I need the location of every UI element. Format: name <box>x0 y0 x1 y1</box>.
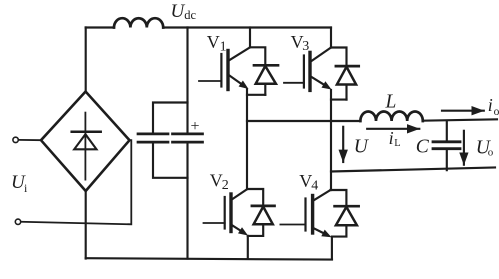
wire: right leg midsection <box>330 100 332 190</box>
transistor V1 gate lead <box>199 80 221 82</box>
svg-text:2: 2 <box>222 178 229 193</box>
transistor V2 gate bar <box>224 197 226 229</box>
diode VD1 triangle <box>256 66 276 84</box>
transistor V2 emitter arrow <box>238 227 248 235</box>
capacitor C output filter stem <box>446 121 448 171</box>
svg-text:o: o <box>494 106 499 118</box>
bridge diode symbol lead <box>84 113 86 180</box>
transistor V1 collector drop from top rail <box>249 28 251 48</box>
wire: bottom dc rail <box>86 258 332 259</box>
transistor V2 emitter diagonal <box>231 225 240 231</box>
diode VD1 cathode bar <box>254 64 278 67</box>
diode bridge rectifier (diamond) <box>41 92 130 192</box>
transistor V4 body bar <box>311 196 314 234</box>
svg-text:i: i <box>24 181 28 195</box>
wire: V4 emitter to bottom rail <box>331 237 333 258</box>
arrow Uo (output voltage) <box>463 131 465 165</box>
bridge diode cathode bar <box>72 131 101 134</box>
diode VD2 anode stem and stub <box>248 225 263 236</box>
diode VD3 top stub <box>331 48 347 65</box>
transistor V1 gate bar <box>220 54 222 87</box>
transistor V3 collector diagonal <box>310 48 331 63</box>
svg-text:+: + <box>191 118 200 135</box>
svg-text:4: 4 <box>311 179 318 194</box>
bridge diode triangle <box>74 134 96 149</box>
diode VD4 triangle <box>336 207 357 225</box>
diode VD2 triangle <box>254 207 273 225</box>
arrow U (bridge output voltage) <box>342 127 344 162</box>
wire: V3 emitter to midpoint stub <box>331 90 347 100</box>
diode VD3 cathode bar <box>336 65 359 68</box>
wire: bridge bottom vertex to bottom rail <box>85 191 87 259</box>
svg-text:U: U <box>354 136 370 157</box>
diode VD1 anode stem <box>264 85 266 95</box>
transistor V1 emitter diagonal <box>228 75 241 84</box>
wire: top rail left segment <box>86 26 114 28</box>
transistor V3 gate lead <box>284 82 304 84</box>
diode VD4 top stub <box>331 190 347 205</box>
wire: top rail right segment to right leg <box>163 26 331 28</box>
transistor V2 gate lead <box>204 222 225 224</box>
transistor V3 collector drop from top rail <box>330 28 332 48</box>
transistor V3 emitter arrow <box>322 81 332 89</box>
svg-text:o: o <box>488 146 494 158</box>
transistor V3 emitter diagonal <box>310 76 324 84</box>
transistor V4 emitter diagonal <box>313 228 323 233</box>
node Udc: dc rail drop to capacitor bank <box>186 28 188 134</box>
capacitor C plates <box>433 142 460 149</box>
transistor V3 body bar <box>308 52 311 90</box>
wire: bridge top vertex to top rail <box>85 28 87 92</box>
terminal: ac input lower <box>15 219 20 224</box>
svg-text:i: i <box>389 128 394 148</box>
wire: output tap A (top output line) <box>247 120 360 122</box>
svg-text:V: V <box>207 32 220 52</box>
svg-text:L: L <box>394 138 400 149</box>
transistor V1 emitter arrow <box>239 81 249 90</box>
transistor V3 gate bar <box>303 56 305 88</box>
diode VD4 cathode bar <box>335 205 359 208</box>
inductor L (output filter) <box>360 111 422 121</box>
diode VD1 top stub <box>250 47 265 64</box>
transistor V4 gate bar <box>304 199 306 231</box>
transistor V4 gate lead <box>280 224 305 226</box>
transistor V4 collector diagonal <box>313 190 331 201</box>
inductor Ld (dc-link smoothing choke) <box>114 18 163 27</box>
arrow io (output current) <box>442 110 484 112</box>
wire: V2 emitter to bottom rail <box>247 236 249 259</box>
wire: after L to output <box>423 119 497 120</box>
transistor V2 body bar <box>229 194 232 232</box>
wire: dc rail below capacitor to bottom rail <box>186 143 188 259</box>
diode VD3 anode stem <box>345 86 347 100</box>
transistor V1 body bar <box>226 51 229 90</box>
capacitor C1 (left dc-link cap) parallel loop <box>153 103 188 178</box>
diode VD3 triangle <box>337 67 356 85</box>
wire: output tap B (bottom output line) <box>331 168 495 172</box>
capacitor C2 (right dc-link cap) plates <box>173 134 203 142</box>
capacitor C1 plates <box>138 134 168 142</box>
diode VD2 cathode bar <box>252 205 275 208</box>
svg-text:i: i <box>488 95 493 115</box>
svg-text:C: C <box>416 137 430 158</box>
terminal: ac input upper <box>13 137 18 142</box>
svg-text:dc: dc <box>184 8 196 22</box>
wire: lower terminal to bridge right vertex <box>21 140 131 224</box>
transistor V2 collector diagonal <box>231 189 247 200</box>
svg-text:1: 1 <box>220 40 227 55</box>
transistor V4 emitter arrow <box>321 230 331 238</box>
diode VD4 anode stem and stub <box>332 226 347 237</box>
arrow iL (inductor current) <box>367 128 419 130</box>
wire: V1 emitter to midpoint stub <box>247 90 265 95</box>
wire: upper terminal to bridge left vertex <box>19 139 42 141</box>
svg-text:3: 3 <box>302 39 309 54</box>
svg-text:L: L <box>385 92 397 113</box>
diode VD2 top stub <box>247 189 263 205</box>
transistor V1 collector diagonal <box>228 47 250 61</box>
wire: left leg midsection <box>246 95 248 189</box>
